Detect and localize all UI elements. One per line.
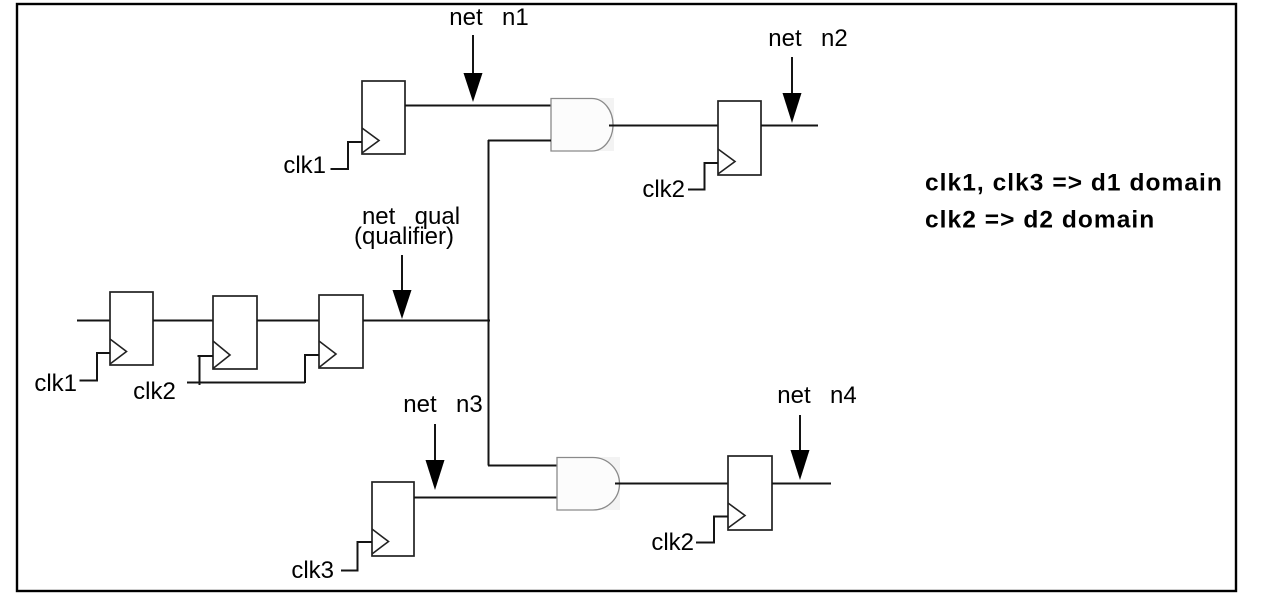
svg-text:net n2: net n2	[768, 25, 847, 52]
svg-text:clk3: clk3	[291, 557, 334, 584]
flip-flop U5 (sync chain 3, clocked by clk2)	[319, 295, 363, 368]
flip-flop U7 (bottom-right, clocked by clk2)	[728, 456, 772, 530]
wire clk2 rail	[187, 382, 305, 384]
wire G1 output to U2	[609, 125, 718, 127]
svg-text:(qualifier): (qualifier)	[354, 223, 454, 250]
wire clk1 to U1 clock pin	[331, 142, 363, 169]
svg-text:clk2: clk2	[133, 378, 176, 405]
svg-text:net n4: net n4	[777, 382, 856, 409]
flip-flop U6 (bottom, clocked by clk3)	[372, 482, 414, 556]
wire net n4 (U7 output)	[772, 483, 831, 485]
wire clk2 branch to U4 clock pin	[198, 356, 214, 385]
wire synchronizer chain input	[77, 320, 110, 322]
wire clk2 to U2 clock pin	[688, 163, 718, 190]
svg-text:clk2: clk2	[642, 176, 685, 203]
arrow pointing to net n4	[791, 415, 810, 480]
wire clk2 to U7 clock pin	[696, 517, 728, 543]
arrow pointing to net qual	[393, 255, 412, 319]
flip-flop U4 (sync chain 2, clocked by clk2)	[213, 296, 257, 369]
svg-text:net n3: net n3	[403, 391, 482, 418]
arrow pointing to net n1	[464, 35, 483, 102]
arrow pointing to net n2	[783, 57, 802, 123]
wire U3 to U4	[153, 320, 213, 322]
wire net qual (U5 output, horizontal)	[363, 320, 490, 322]
flip-flop U3 (sync chain 1, clocked by clk1)	[110, 292, 153, 365]
wire clk3 to U6 clock pin	[341, 542, 372, 571]
svg-text:clk2: clk2	[651, 529, 694, 556]
svg-text:clk2 => d2 domain: clk2 => d2 domain	[925, 207, 1155, 234]
wire qualifier to G2 upper input	[488, 465, 557, 467]
flip-flop U1 (top-left, clocked by clk1)	[362, 81, 405, 154]
wire net n2 (U2 output)	[761, 125, 818, 127]
svg-text:clk1: clk1	[283, 152, 326, 179]
wire qualifier to G1 lower input	[488, 140, 551, 142]
wire G2 output to U7	[615, 483, 728, 485]
svg-text:net n1: net n1	[449, 4, 528, 31]
and-gate G1 (top)	[551, 98, 614, 151]
arrow pointing to net n3	[426, 424, 445, 490]
wire qualifier vertical rail	[488, 140, 490, 466]
wire clk1 to U3 clock pin	[80, 353, 111, 381]
wire net n1 (U1 output to AND gate G1)	[405, 105, 551, 107]
flip-flop U2 (top-right, clocked by clk2)	[718, 101, 761, 175]
svg-text:clk1: clk1	[34, 370, 77, 397]
wire net n3 (U6 output to AND gate G2)	[414, 497, 557, 499]
wire U4 to U5	[257, 320, 319, 322]
wire clk2 branch to U5 clock pin	[305, 355, 319, 383]
svg-text:clk1, clk3 => d1 domain: clk1, clk3 => d1 domain	[925, 170, 1223, 197]
and-gate G2 (bottom)	[557, 457, 620, 510]
